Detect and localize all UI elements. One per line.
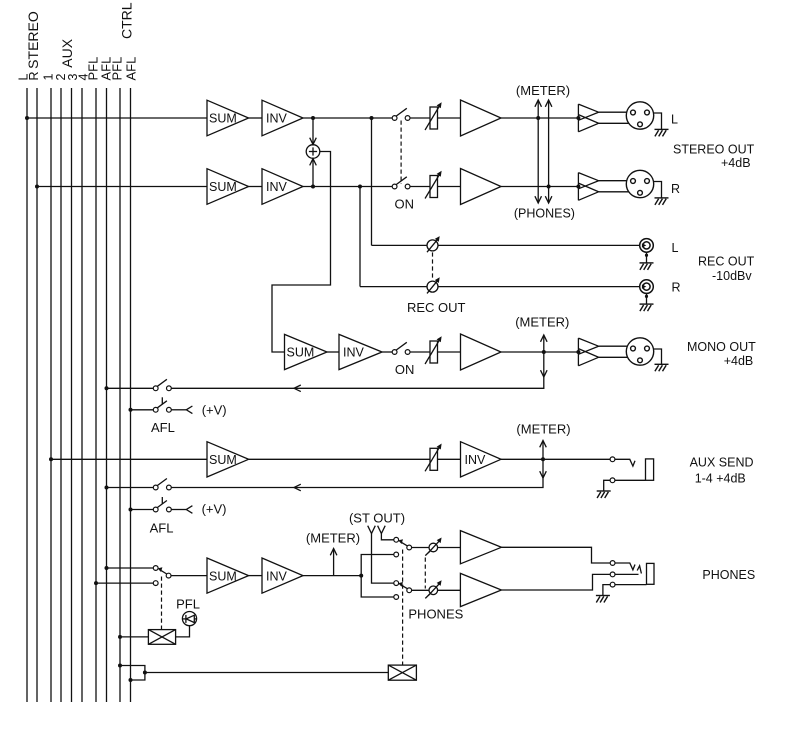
gang dashed ON <box>400 121 402 185</box>
ground XLR R <box>655 198 669 205</box>
node AUX1 bus tap <box>49 457 53 461</box>
wire aux bus to SUM <box>51 458 207 460</box>
node rec tap L <box>370 116 374 120</box>
amplifier phones upper <box>460 531 501 564</box>
wire to +V aux <box>171 509 186 511</box>
buffer pair R <box>578 173 629 201</box>
wire buffer L cold <box>599 122 629 124</box>
REC OUT SECTION <box>360 118 640 287</box>
wire R to adder <box>312 159 314 187</box>
op-amp SUM aux <box>207 442 249 477</box>
gang dashed selector to mute <box>402 550 404 666</box>
svg-text:INV: INV <box>343 346 365 360</box>
svg-text:SUM: SUM <box>287 346 315 360</box>
svg-text:ON: ON <box>395 197 415 212</box>
wire SUM to INV <box>249 186 262 188</box>
wire adder to mono sum <box>272 152 331 353</box>
switch AFL mono feedback <box>105 386 109 390</box>
svg-text:+4dB: +4dB <box>724 354 754 368</box>
wire mix to lower contact <box>361 576 394 597</box>
node AFL tap phones <box>105 566 109 570</box>
fader L <box>425 102 442 130</box>
fader aux <box>425 444 442 472</box>
wire buffer mono cold <box>599 356 629 358</box>
svg-text:AFL: AFL <box>124 57 139 81</box>
svg-text:ON: ON <box>395 362 415 377</box>
op-amp SUM R <box>207 169 249 205</box>
bus AFL1 <box>106 88 108 702</box>
wire jack tip aux <box>615 459 635 466</box>
switch ON R <box>392 184 397 189</box>
wire INV to switch <box>303 186 392 188</box>
wire buffer mono hot <box>599 345 628 347</box>
st out arrow left <box>368 526 376 534</box>
svg-text:INV: INV <box>465 453 487 467</box>
fader R <box>425 171 442 199</box>
jack phones ring contact <box>610 572 615 577</box>
wire selector to pot lower <box>412 589 429 591</box>
svg-text:PFL: PFL <box>176 597 200 612</box>
connector XLR L <box>626 102 653 129</box>
jack phones tip contact <box>610 561 615 566</box>
wire st out L to lower selector <box>372 534 394 584</box>
svg-text:(METER): (METER) <box>515 315 569 330</box>
ground jack aux <box>597 491 611 498</box>
wire amp lower to jack ring <box>501 574 610 590</box>
selector upper phones <box>394 537 399 542</box>
st out arrow right <box>378 526 386 534</box>
switch AFL mono +V <box>129 408 133 412</box>
connector RCA R <box>640 280 654 294</box>
wire XLR mono to ground <box>654 349 662 364</box>
svg-text:(METER): (METER) <box>516 83 570 98</box>
wire buffer L hot <box>599 111 628 113</box>
node branch to mute box <box>143 671 147 675</box>
wire jack sleeve phones <box>615 584 647 586</box>
STEREO-L ROW <box>27 117 578 119</box>
wire jack ring phones <box>615 573 639 575</box>
svg-text:AUX SEND: AUX SEND <box>690 456 754 470</box>
gang dashed to pfl logic <box>161 577 163 630</box>
node adder tap R <box>311 185 315 189</box>
svg-text:(+V): (+V) <box>202 403 227 418</box>
connector XLR R <box>626 170 653 197</box>
svg-text:1-4 +4dB: 1-4 +4dB <box>695 472 746 486</box>
svg-text:SUM: SUM <box>209 112 237 126</box>
node mix split phones <box>359 574 363 578</box>
node meter tap L <box>536 116 540 120</box>
gang dashed rec <box>432 252 434 279</box>
svg-text:INV: INV <box>266 112 288 126</box>
pot REC R <box>427 277 440 293</box>
mute logic box <box>388 665 416 680</box>
wire jack tip phones <box>615 563 635 570</box>
bus AFL2 <box>130 88 132 702</box>
wire INV to jack aux <box>501 458 610 460</box>
PFL led indicator <box>182 612 196 626</box>
node L bus tap <box>25 116 29 120</box>
node PFL tap phones <box>94 581 98 585</box>
bus AUX4 <box>81 88 83 702</box>
STEREO-R ROW <box>37 186 578 188</box>
wire INV to switch mono <box>382 351 392 353</box>
svg-text:INV: INV <box>266 569 288 583</box>
wire to +V mono <box>171 409 186 411</box>
wire SUM to INV mono <box>327 351 339 353</box>
svg-text:PFL: PFL <box>110 57 125 81</box>
node buffer in R <box>576 185 580 189</box>
wire jack sleeve aux <box>615 479 646 481</box>
bus PFL1 <box>95 88 97 702</box>
switch AFL aux feedback <box>105 486 109 490</box>
svg-text:AFL: AFL <box>150 521 174 536</box>
jack ring spring <box>637 566 641 574</box>
connector XLR mono <box>626 338 653 365</box>
ground XLR L <box>655 129 669 136</box>
wire SUM to INV <box>249 117 262 119</box>
svg-text:R: R <box>27 71 41 80</box>
wire switch to amp <box>410 117 461 119</box>
wire pot to amp upper <box>438 547 461 549</box>
node R bus tap <box>35 185 39 189</box>
connector RCA L <box>640 239 654 253</box>
node buffer in mono <box>576 350 580 354</box>
ground XLR mono <box>655 364 669 371</box>
amplifier phones lower <box>460 573 501 606</box>
svg-text:INV: INV <box>266 180 288 194</box>
meter line aux <box>171 441 543 488</box>
svg-text:STEREO OUT: STEREO OUT <box>673 143 755 157</box>
op-amp SUM L <box>207 100 249 136</box>
op-amp INV mono <box>339 334 382 369</box>
svg-text:PHONES: PHONES <box>702 568 755 582</box>
svg-text:SUM: SUM <box>209 569 237 583</box>
jack body aux <box>646 459 654 480</box>
wire R tap down <box>359 187 361 287</box>
switch PFL/AFL select phones <box>153 566 158 571</box>
wire INV to switch <box>303 117 392 119</box>
wire select to SUM phones <box>171 575 207 577</box>
pfl logic box <box>148 630 175 645</box>
buffer pair mono <box>578 338 629 366</box>
op-amp INV aux <box>461 442 502 477</box>
meter line mono <box>171 335 544 388</box>
svg-text:+4dB: +4dB <box>721 156 751 170</box>
pot phones lower <box>425 580 441 598</box>
wire INV to selector phones <box>303 575 361 577</box>
wire amp upper to jack tip <box>501 547 610 563</box>
op-amp SUM phones <box>207 558 249 593</box>
wire L to adder <box>312 118 314 145</box>
amplifier mono <box>461 334 502 370</box>
node PFL2 tap lower <box>118 664 122 668</box>
wire rec L row <box>372 244 641 246</box>
ground RCA L <box>646 252 648 263</box>
svg-text:(METER): (METER) <box>516 422 570 437</box>
node meter tap aux <box>541 457 545 461</box>
wire rec R row <box>360 286 640 288</box>
svg-text:AUX: AUX <box>59 38 75 67</box>
ground jack phones <box>596 596 610 603</box>
op-amp INV R <box>262 169 303 205</box>
wire st out R to upper selector <box>381 534 393 540</box>
bus R <box>36 88 38 702</box>
wire XLR R to ground <box>654 182 662 198</box>
svg-text:STEREO: STEREO <box>25 11 41 69</box>
wire L bus to SUM <box>27 117 207 119</box>
svg-text:PHONES: PHONES <box>408 607 463 622</box>
svg-text:AFL: AFL <box>151 420 175 435</box>
jack phones sleeve contact <box>610 582 615 587</box>
wire SUM to fader aux <box>249 458 461 460</box>
jack AUX tip contact <box>610 457 615 462</box>
op-amp INV L <box>262 100 303 136</box>
buffer pair L <box>578 104 629 132</box>
switch ON mono <box>392 350 397 355</box>
wire switch to amp <box>410 186 461 188</box>
bus L <box>26 88 28 702</box>
svg-text:CTRL: CTRL <box>119 2 135 39</box>
gang dashed pots <box>424 558 426 589</box>
wire pot to amp lower <box>438 589 461 591</box>
svg-text:L: L <box>671 113 678 127</box>
node AFL2 join <box>129 678 133 682</box>
op-amp INV phones <box>262 558 303 593</box>
bus AUX1 <box>50 88 52 702</box>
pot phones upper <box>425 538 441 556</box>
bus AUX3 <box>71 88 73 702</box>
fader mono <box>425 336 442 364</box>
svg-text:REC OUT: REC OUT <box>407 300 466 315</box>
node meter tap R <box>547 185 551 189</box>
bus AUX2 <box>60 88 62 702</box>
summing node wires <box>272 118 331 352</box>
node buffer in L <box>576 116 580 120</box>
wire SUM to INV phones <box>249 575 262 577</box>
arrowhead into adder top <box>310 138 317 145</box>
amplifier L <box>461 100 502 136</box>
svg-text:-10dBv: -10dBv <box>712 269 752 283</box>
node adder tap L <box>311 116 315 120</box>
bus PFL2 <box>119 88 121 702</box>
wire sleeve to ground phones <box>603 585 611 596</box>
jack body phones <box>647 563 655 584</box>
svg-text:SUM: SUM <box>209 453 237 467</box>
meter line stereo 2 <box>548 100 550 203</box>
svg-text:SUM: SUM <box>209 180 237 194</box>
wire box to led <box>176 626 190 637</box>
svg-text:R: R <box>672 281 681 295</box>
wire mix to upper contact <box>361 555 394 576</box>
op-amp SUM mono <box>285 334 328 369</box>
wire amp to buffer <box>501 117 578 119</box>
wire R bus to SUM <box>37 186 207 188</box>
wire sleeve to ground aux <box>604 480 611 491</box>
svg-text:(ST OUT): (ST OUT) <box>349 511 405 526</box>
wire buffer R hot <box>599 180 628 182</box>
node PFL2 tap to pfl box <box>118 635 122 639</box>
adder circle-plus <box>306 145 320 159</box>
wire amp to buffer mono <box>501 351 578 353</box>
svg-text:R: R <box>671 182 680 196</box>
MONO SECTION <box>327 351 578 353</box>
node rec tap R <box>358 185 362 189</box>
wire L tap down <box>371 118 373 245</box>
switch ON L <box>392 116 397 121</box>
node meter tap mono <box>542 350 546 354</box>
svg-text:(METER): (METER) <box>306 531 360 546</box>
svg-text:MONO OUT: MONO OUT <box>687 340 756 354</box>
arrowhead into adder bottom <box>310 159 317 166</box>
jack AUX sleeve contact <box>610 478 615 483</box>
switch AFL aux +V <box>129 508 133 512</box>
wire XLR L to ground <box>654 113 662 129</box>
selector lower phones <box>394 581 399 586</box>
svg-text:REC OUT: REC OUT <box>698 255 755 269</box>
ground RCA R <box>646 293 648 304</box>
wire step pfl2 to afl2 <box>120 666 145 681</box>
svg-text:L: L <box>672 241 679 255</box>
wire amp to buffer <box>501 186 578 188</box>
svg-text:(+V): (+V) <box>202 502 227 517</box>
wire selector to pot upper <box>412 547 429 549</box>
pot REC L <box>427 236 440 252</box>
wire buffer R cold <box>599 191 629 193</box>
amplifier R <box>461 169 502 205</box>
wire switch to amp mono <box>410 351 461 353</box>
meter arrow phones <box>333 549 335 576</box>
meter line stereo 1 <box>537 100 539 203</box>
svg-text:(PHONES): (PHONES) <box>514 207 575 221</box>
wire to mute box <box>145 672 388 674</box>
